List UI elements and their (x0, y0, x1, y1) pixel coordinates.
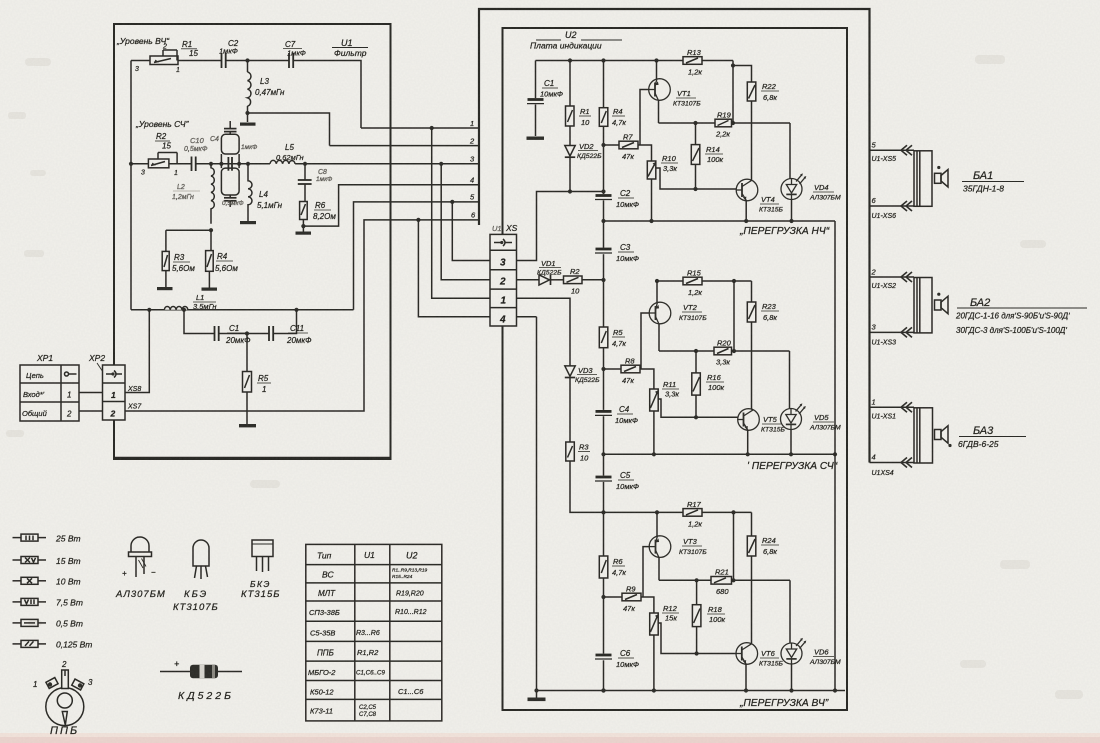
connector XP2 (88, 353, 125, 420)
speaker BA3 (6ГДВ-6-25) (870, 398, 1027, 478)
label U2 (530, 30, 622, 51)
wire R9 row (604, 596, 623, 598)
transistor VT4 (КТ315Б) (736, 179, 783, 221)
wire collector row y351 (659, 349, 790, 353)
speaker BA2 (20ГДС / 30ГДС) (870, 268, 1088, 347)
capacitor C6 (10мкФ) (595, 649, 639, 669)
wire R11 wiper to base line (658, 399, 738, 417)
resistor R13 (1,2к) (683, 48, 702, 77)
capacitor C3 (10мкФ) (595, 243, 639, 263)
node L3 bottom (245, 111, 249, 115)
diode VD1 (537, 259, 564, 285)
resistor R8 (47к) (621, 357, 640, 386)
legend resistor 25 Вт (13, 534, 81, 544)
resistor R1 (10) (566, 61, 592, 128)
wire R10 wiper to base line (656, 168, 737, 189)
wire LF emitter rail (604, 219, 836, 223)
legend resistor 7,5 Вт (13, 598, 83, 608)
resistor R20 (3,3к) (714, 339, 732, 367)
wire mid line (196, 162, 270, 166)
resistor R21 (680) (711, 568, 732, 597)
trimmer R11 (3,3к) (650, 380, 680, 411)
transistor VT6 (КТ315Б) (736, 643, 783, 691)
capacitor C5 (series mid) (228, 144, 257, 171)
resistor R3 (5,6 Ом) (162, 230, 195, 273)
legend resistor 0,125 Вт (13, 640, 93, 650)
frame (cabinet boundary) (479, 9, 870, 463)
trimmer R10 (3,3к) (647, 154, 678, 179)
ground L4 (240, 221, 256, 224)
wire XP1 to XP2 pin1 (79, 392, 103, 394)
wire node row MF (655, 279, 752, 283)
node net6 to XS pin4 (416, 218, 490, 317)
capacitor C8 (298, 164, 333, 202)
wire x733.5 (733, 512, 735, 580)
wire net 1 (from C7) (361, 127, 479, 129)
capacitor C4 (10мкФ) (595, 405, 638, 425)
wire supply rail (536, 58, 734, 62)
resistor R4 (5,6 Ом) (206, 230, 239, 273)
wire input vertical x131 (129, 61, 133, 310)
wire R11 bottom to rail (653, 411, 655, 454)
speaker BA1 (35ГДН-1-8) (870, 141, 1025, 221)
capacitor C11 (20мкФ) (269, 324, 312, 345)
wire node row HF (604, 510, 752, 514)
node net1 to XS pin1 (430, 126, 490, 298)
ground R5 (239, 392, 256, 427)
wire net 2 from L3 node (248, 113, 330, 146)
capacitor C5 (10мкФ) (595, 471, 639, 491)
resistor R19 (2,2к) (715, 111, 732, 139)
transistor VT1 (КТ3107Б) (640, 61, 701, 146)
node XS8 (125, 310, 149, 393)
wire right return rail x835 (834, 221, 836, 691)
wire R3 R4 top bar (166, 228, 213, 232)
capacitor C10 (series after pot) (169, 136, 208, 171)
legend resistor 10 Вт (13, 577, 81, 587)
transistor VT5 (КТ315Б) (738, 409, 786, 455)
wire R12 wiper to base line (658, 623, 736, 654)
resistor R18 (100к) (692, 580, 725, 655)
ground L3 (240, 113, 256, 126)
capacitor C1 (20мкФ) (215, 324, 252, 345)
capacitor C1 (10мкФ) (527, 61, 563, 137)
resistor R23 (6,8к) (747, 281, 779, 409)
resistor R5 (1 Ом) (243, 334, 272, 395)
legend resistor 0,5 Вт (13, 619, 83, 629)
wire to R11 (640, 369, 654, 389)
node VD2 bottom (568, 189, 572, 193)
wire R22 to VT4 collector (751, 101, 753, 180)
wire R10 bottom to rail (651, 179, 653, 221)
inductor L5 (270, 143, 304, 164)
drawing ППБ potentiometer (33, 660, 93, 737)
wire (178, 60, 222, 62)
wire R8 row (604, 368, 622, 370)
resistor R6 (4,7к) (599, 556, 626, 578)
inductor L4 (248, 164, 283, 221)
resistor R14 (100к) (691, 123, 723, 191)
drawing КТ315Б package (241, 540, 280, 600)
wire to line 1 riser (293, 61, 361, 129)
resistor R16 (100к) (692, 351, 725, 419)
wire to R10 (638, 145, 652, 161)
box U2 (503, 28, 848, 710)
inductor L1 (164, 293, 216, 311)
resistor R4 (4,7к) (599, 107, 626, 127)
resistor R15 (1,2к) (683, 269, 702, 298)
wire XS pin3 to NCH input (517, 192, 604, 261)
LED VD6 (АЛ307БМ) (781, 580, 841, 690)
wire mid line right (295, 162, 479, 166)
node net5 to XS pin3 (450, 200, 490, 261)
wire XP1 to XP2 pin2 (79, 410, 103, 412)
resistor R5 (4,7к) (599, 327, 626, 348)
capacitor C7 (283, 40, 306, 68)
resistor R22 (6,8к) (733, 66, 779, 103)
label U1 (332, 38, 368, 58)
ground C1 (527, 137, 545, 140)
resistor R3 (10) (566, 442, 590, 463)
box U1 (114, 24, 391, 459)
connector XS (U1-XS) (490, 223, 518, 326)
drawing КТ3107Б package (173, 540, 219, 613)
resistor R2 (10) (564, 267, 604, 296)
wire XS pin4 to ground (517, 316, 537, 318)
wire R12 bottom to rail (653, 635, 655, 691)
wire XS pin2 row (517, 279, 539, 281)
potentiometer R1 (131, 40, 198, 74)
wire net 4 (303, 185, 479, 226)
wire x734 (733, 281, 735, 351)
wire XS pin1 to VD3 (517, 298, 571, 366)
wire R3 to HF node (570, 461, 604, 512)
wire net 2 (330, 145, 480, 147)
wire collector row y580 (659, 578, 790, 582)
wire R7 row (604, 144, 620, 146)
legend resistor 15 Вт (13, 556, 81, 566)
diode VD3 (565, 366, 600, 442)
resistor R24 (6,8к) (747, 512, 779, 643)
capacitor C2 (10мкФ) (595, 189, 639, 209)
drawing LED АЛ307БМ (115, 537, 166, 600)
wire rail corner to R19 row (731, 61, 735, 124)
ground R4 (202, 271, 218, 290)
transistor VT2 (КТ3107Б) (641, 281, 707, 369)
node net3 to XS pin2 (439, 162, 490, 280)
capacitor C3 (lower loop) (221, 164, 243, 207)
resistor R9 (47к) (622, 585, 641, 614)
wire collector row y123 (659, 121, 791, 125)
wire caps row (182, 308, 299, 336)
wire (226, 58, 289, 62)
inductor L2 (172, 164, 214, 224)
inductor L3 (248, 61, 286, 114)
ground R6 and net 4 (296, 220, 312, 235)
connector XP1 (20, 353, 79, 421)
wire net 5 (woofer line) (131, 202, 479, 312)
parts table (306, 544, 442, 721)
diode VD2 (565, 126, 602, 192)
ground symbol U2 (528, 691, 546, 702)
resistor R6 (8,2 Ом) (300, 201, 337, 221)
potentiometer R2 (131, 132, 178, 177)
transistor VT3 (КТ3107Б) (643, 512, 707, 597)
drawing diode КД522Б (160, 659, 242, 702)
wire ground rail bottom (534, 688, 845, 692)
trimmer R12 (15к) (650, 604, 679, 635)
resistor R7 (47к) (619, 133, 638, 162)
main column x603.5 (601, 61, 605, 693)
node XS7 / wire net 6 (125, 220, 479, 411)
wire to R12 (641, 597, 654, 613)
LED VD5 (АЛ307БМ) (781, 351, 841, 454)
LED VD4 (АЛ307БМ) (781, 123, 841, 221)
capacitor C4 (upper loop) (210, 121, 239, 164)
ground R3 (157, 271, 173, 291)
capacitor C2 (219, 39, 239, 68)
resistor R17 (1,2к) (683, 500, 702, 529)
wire MF emitter rail (604, 452, 838, 456)
